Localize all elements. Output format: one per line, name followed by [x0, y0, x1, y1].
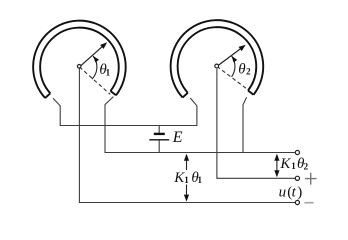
- output terminal node (plus): [295, 176, 299, 180]
- dashed reference line of RP1: [79, 67, 110, 94]
- svg-text:1: 1: [198, 175, 203, 185]
- svg-text:): ): [297, 184, 302, 200]
- wiper arrow of RP1: [79, 42, 107, 67]
- wire: lower bus from RP1 right leg past battery to terminal: [105, 152, 296, 154]
- potentiometer RP2 ring (right circular resistance element): [171, 20, 264, 97]
- label theta1: [99, 62, 110, 78]
- minus sign at output: [304, 202, 313, 204]
- wire: RP2 right terminal leg down to lower bus: [243, 97, 247, 152]
- svg-text:u: u: [279, 184, 287, 200]
- label K1theta1: [173, 170, 202, 186]
- svg-text:K: K: [279, 156, 291, 172]
- angle arc theta1 with arrowhead: [92, 56, 99, 79]
- label theta2: [238, 62, 251, 78]
- wire: battery top lead: [158, 126, 160, 134]
- output terminal node (top, end of lower bus): [295, 150, 299, 154]
- label u(t): [279, 184, 303, 200]
- svg-text:1: 1: [291, 161, 296, 171]
- svg-text:2: 2: [304, 162, 309, 172]
- pivot node of RP2: [215, 64, 219, 68]
- output terminal node (minus): [295, 200, 299, 204]
- svg-text:1: 1: [106, 67, 111, 77]
- pivot node of RP1: [77, 65, 81, 69]
- battery E long thin plate: [149, 139, 169, 141]
- dimension arrow K1theta2 (double-headed): [274, 154, 279, 177]
- wire: RP1 wiper lead down and across to minus output terminal: [79, 69, 295, 203]
- angle arc theta2 with arrowhead: [232, 56, 238, 77]
- wire: RP2 wiper lead down and across to plus output terminal: [217, 69, 295, 179]
- wire: RP1 left terminal leg down to upper bus: [53, 98, 60, 125]
- battery E short thick plate: [154, 133, 165, 135]
- wire: battery bottom lead: [158, 140, 160, 152]
- svg-text:1: 1: [184, 175, 189, 185]
- svg-text:θ: θ: [238, 62, 246, 78]
- plus sign at output: [305, 173, 317, 185]
- label K1theta2: [279, 156, 308, 172]
- svg-text:2: 2: [246, 67, 251, 77]
- wiper arrow of RP2: [217, 45, 246, 67]
- dimension arrow K1theta1 (double-headed, broken by label): [184, 154, 189, 202]
- svg-text:E: E: [172, 129, 183, 146]
- wire: RP2 left terminal leg down to upper bus: [190, 98, 197, 126]
- wire: RP1 right terminal leg down to lower bus: [105, 97, 113, 153]
- dashed reference line of RP2: [217, 66, 248, 89]
- potentiometer RP1 ring (left circular resistance element): [33, 21, 126, 98]
- wire: upper bus connecting RP1 left leg, battery +, RP2 left leg: [60, 125, 198, 127]
